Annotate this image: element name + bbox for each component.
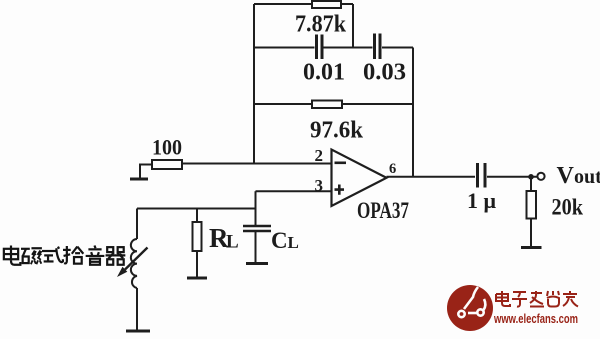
svg-text:V: V — [557, 163, 575, 189]
svg-text:www.elecfans.com: www.elecfans.com — [493, 311, 578, 326]
svg-text:6: 6 — [389, 161, 396, 177]
svg-text:100: 100 — [152, 135, 182, 160]
svg-text:out: out — [574, 166, 600, 188]
svg-text:OPA37: OPA37 — [357, 198, 409, 223]
svg-text:97.6k: 97.6k — [310, 118, 364, 144]
svg-text:3: 3 — [315, 176, 324, 195]
svg-text:L: L — [226, 232, 239, 253]
svg-text:0.03: 0.03 — [363, 60, 406, 86]
svg-text:2: 2 — [315, 146, 324, 165]
svg-text:C: C — [271, 228, 288, 253]
svg-text:0.01: 0.01 — [303, 60, 345, 86]
svg-text:7.87k: 7.87k — [295, 12, 347, 38]
svg-text:20k: 20k — [552, 195, 584, 220]
svg-text:L: L — [288, 233, 299, 252]
svg-text:1 μ: 1 μ — [467, 188, 497, 213]
